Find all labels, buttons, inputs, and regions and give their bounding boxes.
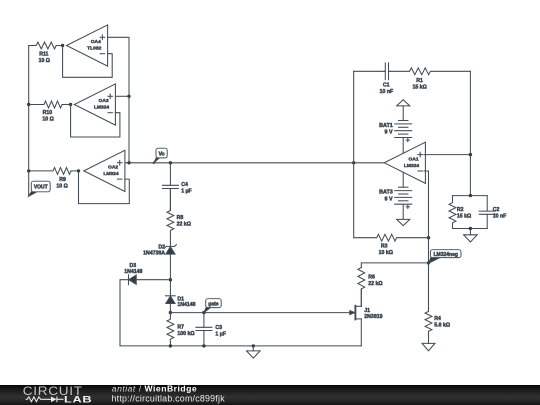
wire OA1 noninv [424,154,470,156]
wire R2C2 top rail [453,195,488,197]
capacitor C1 [380,63,394,95]
footer bar [0,385,540,405]
CircuitLab logo wordmark LAB [64,395,92,405]
node C4 branch junction [169,161,172,164]
node OA2 output junction [77,169,80,172]
power flag VCC [397,100,410,121]
wire OA3 noninv to bus [115,95,129,97]
ground R4 [422,343,435,350]
node D3 branch junction [169,278,172,281]
ground R2C2 [464,229,478,243]
wire main Vo net [125,162,384,164]
wire BAT1 to OA1 [402,138,404,154]
node OA4 output junction [61,44,64,47]
node plus-bus OA3 junction [127,95,130,98]
capacitor C4 [162,163,191,211]
wire OA2 feedback [79,171,130,204]
wire D1 to gate node [169,304,171,313]
wire OA1 to BAT3 [402,173,404,188]
wire D2 to D3 node [169,254,171,296]
node R7 rail junction [169,344,172,347]
wire OA3 feedback [71,105,120,138]
node C3 rail junction [202,344,205,347]
flag Vo [154,148,167,163]
node neg T junction [427,261,430,264]
capacitor C3 [196,313,226,346]
battery BAT1 [379,121,412,142]
flag LM324neg [429,250,461,263]
wire gate net [170,312,350,314]
op-amp OA2 [84,150,125,191]
wire D3 left loop [120,280,129,346]
svg-text:http://circuitlab.com/c899fjk: http://circuitlab.com/c899fjk [112,393,226,403]
wire loop left vertical [353,71,355,237]
resistor R8 [167,189,191,247]
flag VOUT [29,181,50,196]
resistor R2 [449,196,471,229]
battery BAT3 [379,187,412,208]
diode D1 [166,296,196,308]
diode D2 zener [143,244,176,256]
resistor R4 [425,263,450,344]
wire D3 to chain [136,279,170,281]
node R2C2 bottom junction [469,227,472,230]
op-amp OA4 [67,25,108,66]
CircuitLab logo wordmark CIRCUIT [23,385,83,398]
ground bottom [247,346,261,358]
resistor R3 [354,234,429,256]
node R9 bus junction [27,169,30,172]
node plus-bus main junction [127,161,130,164]
node loop branch junction [352,161,355,164]
op-amp OA1 [384,142,425,183]
wire neg net vertical [428,238,430,312]
resistor R7 [167,313,195,346]
node gate-left junction [169,311,172,314]
op-amp OA3 [74,84,115,125]
wire R2C2 bottom rail [453,228,488,230]
svg-text:antiat / WienBridge: antiat / WienBridge [112,383,197,393]
svg-text:LAB: LAB [64,395,92,405]
transistor J1 [350,289,383,346]
diode D3 [124,263,142,285]
wire neg net to R6 [361,263,428,268]
node R2C2 top junction [469,194,472,197]
node gate flag junction [202,311,205,314]
CircuitLab logo diode symbol [51,396,64,402]
CircuitLab logo resistor squiggle [26,397,51,402]
wire bottom rail [120,345,361,347]
node R3 junction [427,236,430,239]
resistor R6 [358,268,383,307]
node Vo attach [153,162,155,164]
node OA1 plus junction [469,153,472,156]
wire plus bus [128,96,130,163]
capacitor C2 [479,196,506,229]
resistor R11 [29,42,63,64]
flag gate [204,299,221,313]
wire OA4 noninv to bus [108,37,129,96]
wire loop top left [354,70,385,72]
wire VOUT bus [28,46,30,196]
wire loop right vertical [469,71,471,195]
power flag VEE [397,204,410,225]
node R10 bus junction [27,103,30,106]
node gnd rail junction [252,344,255,347]
resistor R10 [29,101,71,123]
resistor R9 [29,168,79,190]
wire OA1 inv feedback [424,171,429,238]
node OA3 output junction [69,103,72,106]
wire OA4 feedback [63,46,113,78]
resistor R1 [390,68,471,91]
